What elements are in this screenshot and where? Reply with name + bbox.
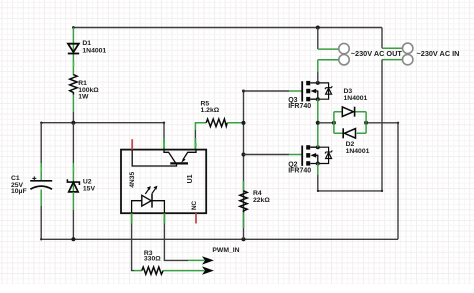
svg-text:22kΩ: 22kΩ (253, 197, 270, 204)
svg-text:IFR740: IFR740 (288, 103, 311, 110)
svg-text:15V: 15V (83, 186, 96, 193)
wire diode loop (334, 112, 366, 134)
node junction mid rail (316, 121, 320, 125)
wire Q2 gate (244, 154, 290, 156)
wire AC OUT bottom stub (318, 59, 339, 61)
node lead tick opto collector pin (163, 143, 165, 146)
node corner nubs on wire bends (163, 122, 165, 124)
node junction loop left (332, 121, 336, 125)
svg-text:10µF: 10µF (11, 188, 27, 195)
node lead tick D1-R1 (73, 63, 75, 66)
wire AC OUT top stub (317, 28, 319, 50)
resistor R1 (70, 75, 77, 95)
node junction bottom left (71, 237, 75, 241)
zener diode U2 (67, 179, 79, 192)
wire zener branch (72, 123, 74, 163)
arrow PWM lower (203, 267, 212, 273)
arrow U1 LED light 1 (145, 188, 149, 194)
connector J1 AC OUT pins (339, 43, 349, 53)
arrow PWM upper (203, 257, 212, 263)
svg-text:1N4001: 1N4001 (344, 95, 368, 102)
diode D2 (343, 128, 355, 138)
svg-text:NC: NC (191, 200, 198, 210)
svg-text:1W: 1W (78, 93, 89, 100)
wire Q2 source down (317, 164, 319, 176)
wire AC IN bottom stub (382, 59, 403, 61)
node junction gate column Q2 (242, 153, 246, 157)
wire Q3 gate (244, 90, 290, 92)
transistor U1 phototransistor (132, 150, 196, 166)
node corner mid-left nub (40, 122, 43, 125)
wire mid rail to diode loop (318, 122, 334, 124)
wire mid horizontal (41, 122, 164, 124)
node corner top-left nub (72, 26, 75, 29)
resistor R5 (206, 119, 227, 127)
node junction Q2 drain (316, 145, 320, 149)
arrow U1 LED light 2 (152, 188, 156, 194)
node junction gate column R5 (242, 121, 246, 125)
wire left chain green D1 leads (72, 28, 74, 76)
node lead tick C1 top (40, 168, 42, 171)
node lead tick opto emitter pin (195, 143, 197, 146)
wire C1 top (40, 123, 42, 163)
resistor R3 (142, 267, 163, 274)
node junction Q3 source (316, 97, 320, 101)
wire R3 right lead to arrow (163, 270, 204, 272)
node junction top rail (316, 26, 320, 30)
svg-text:U2: U2 (83, 179, 92, 186)
pin U1 anode stub (131, 213, 133, 223)
resistor R4 (240, 191, 247, 213)
svg-text:PWM_IN: PWM_IN (212, 247, 239, 254)
wire LED cathode to arrow (164, 224, 188, 261)
wire R5 left lead (195, 123, 206, 130)
wire R3 left lead (134, 270, 142, 272)
wire loop right to bottom rail (366, 123, 398, 240)
svg-text:D2: D2 (346, 141, 355, 148)
wire R5 right lead (227, 122, 243, 124)
node junction Q2 source (316, 162, 320, 166)
svg-text:1N4001: 1N4001 (82, 47, 106, 54)
diode D1 (68, 44, 79, 54)
svg-text:~230V AC OUT: ~230V AC OUT (351, 49, 403, 58)
diode U1 LED (132, 194, 165, 213)
wire R1 bottom lead (72, 95, 74, 113)
pin U1 cathode stub (163, 213, 165, 223)
opto U1 box (121, 150, 206, 214)
capacitor C1 (30, 176, 52, 189)
wire top rail (73, 27, 382, 29)
transistor Q3 mosfet (302, 81, 332, 102)
svg-text:D1: D1 (82, 40, 91, 47)
wire zener bottom (72, 192, 74, 210)
connector J2 AC IN pins (403, 43, 413, 53)
diode D3 (342, 107, 354, 117)
svg-text:1.2kΩ: 1.2kΩ (201, 107, 220, 114)
node junction Q3 drain (316, 81, 320, 85)
svg-text:~230V AC IN: ~230V AC IN (417, 49, 460, 58)
node junction loop right (364, 121, 368, 125)
wire bottom rail (41, 238, 398, 240)
node lead tick U2 top (73, 168, 75, 171)
wire LED anode down to R3 (132, 224, 134, 271)
arrow U1 emitter (181, 158, 185, 163)
svg-text:R4: R4 (253, 190, 262, 197)
wire AC IN top stub (381, 28, 383, 49)
svg-text:D3: D3 (344, 88, 353, 95)
wire C1 bottom (40, 190, 42, 207)
svg-text:IFR740: IFR740 (288, 168, 311, 175)
node junction mid left (71, 121, 75, 125)
pin U1 NC red stub (195, 213, 197, 223)
wire R4 top lead (243, 181, 245, 190)
svg-text:4N35: 4N35 (129, 172, 136, 188)
wire opto collector feed (163, 123, 165, 138)
pin U1 base red stub (131, 139, 133, 149)
svg-text:U1: U1 (187, 174, 194, 183)
wire mid rail Q3 source to Q2 drain (317, 99, 319, 147)
svg-text:330Ω: 330Ω (144, 256, 161, 263)
node junction bottom mid (242, 237, 246, 241)
transistor Q2 mosfet (302, 145, 332, 166)
wire R4 bottom lead (243, 212, 245, 228)
svg-text:1N4001: 1N4001 (346, 148, 370, 155)
wire gate column (243, 91, 245, 239)
